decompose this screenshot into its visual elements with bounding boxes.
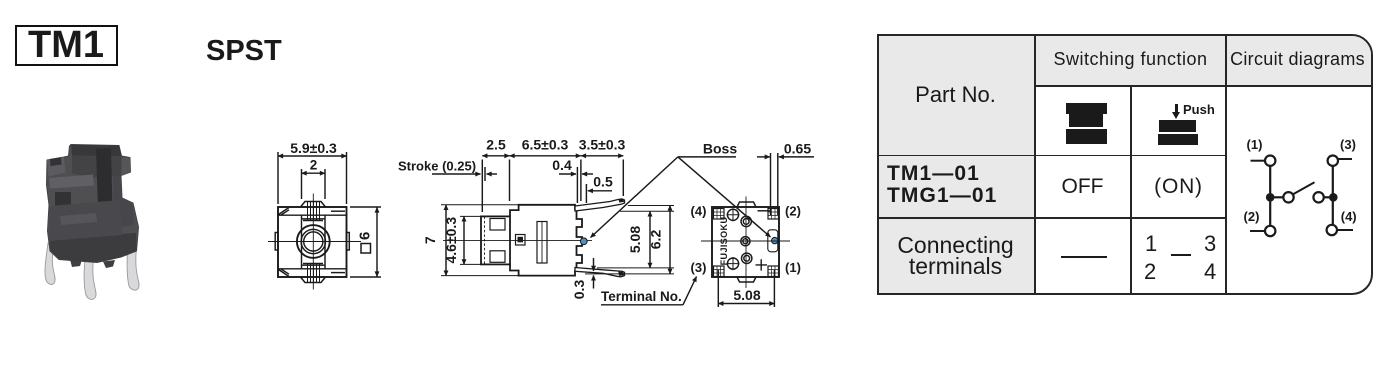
svg-text:0.65: 0.65 (784, 141, 811, 157)
top view button circles (297, 225, 330, 258)
terminal circle 3 (1328, 156, 1338, 166)
svg-text:0.5: 0.5 (593, 174, 613, 190)
dim 0.3 arrows (593, 258, 595, 271)
dim line 2.5 (482, 155, 509, 157)
row connecting terminals (877, 219, 1034, 293)
terminal no. leader arrow (683, 277, 697, 305)
wire left vertical (1269, 166, 1271, 226)
push arrow (1175, 104, 1178, 112)
FUJISOKU brand text (719, 217, 729, 266)
leg centre extension lines (620, 210, 674, 212)
dim 2 extension lines (301, 169, 303, 199)
bottom view top bump (737, 202, 756, 207)
table outer frame (877, 34, 1373, 295)
svg-text:4.6±0.3: 4.6±0.3 (443, 217, 459, 264)
bottom view circle with cross bottom (727, 258, 738, 269)
photo lower mid facet (49, 200, 122, 241)
part number box TM1 (15, 25, 118, 66)
pole circle right (1313, 192, 1323, 202)
dim text 6.2 (648, 230, 664, 250)
svg-text:0.4: 0.4 (552, 157, 572, 173)
cell OFF (1035, 156, 1130, 217)
bottom view body (712, 207, 779, 277)
svg-text:(1): (1) (1247, 137, 1263, 152)
svg-text:(4): (4) (1341, 209, 1357, 224)
dim line 6.5 (510, 155, 581, 157)
dim text 4.6±0.3 (443, 217, 459, 264)
push label (1183, 102, 1227, 117)
series title SPST (206, 35, 296, 65)
header switching function (1035, 34, 1226, 85)
technical drawing (0, 0, 880, 379)
svg-text:6.5±0.3: 6.5±0.3 (522, 137, 569, 153)
dim text 7 (422, 236, 438, 244)
circuit diagrams header background (1228, 36, 1371, 86)
side view button (481, 216, 510, 264)
photo mid flange light band (49, 175, 94, 189)
top view centre channel (301, 215, 303, 269)
svg-text:5.08: 5.08 (733, 287, 760, 303)
svg-text:Boss: Boss (703, 141, 737, 157)
boss dot bottom view (772, 237, 778, 243)
dim text 0.3 (571, 280, 587, 300)
header circuit diagrams (1226, 34, 1369, 85)
side view bottom leg (575, 268, 625, 277)
top view bottom tab (301, 277, 326, 283)
terminal stub 2 (1250, 230, 1265, 232)
svg-text:2: 2 (310, 158, 318, 173)
photo dark inset window (55, 192, 71, 213)
product photo (tactile switch) (28, 140, 148, 305)
bottom view centrelines (701, 240, 790, 242)
svg-text:5.08: 5.08 (627, 226, 643, 253)
grid line horizontal 3 (877, 217, 1227, 219)
bottom view boss outline (768, 230, 778, 252)
terminal circle 4 (1327, 225, 1337, 235)
dim line square-6 (376, 208, 378, 277)
side view centre nub (516, 235, 526, 246)
top view side tabs (275, 233, 278, 251)
dim line 3.5 (581, 155, 623, 157)
wire right vertical (1332, 166, 1334, 225)
icon switch pushed (1158, 120, 1198, 146)
dim square-6 extension lines (350, 206, 381, 208)
boss underline (678, 156, 736, 158)
dim line 6.2 (669, 206, 671, 274)
dim 0.65 extension lines (770, 153, 772, 215)
cell terminals 1-3 2-4 (1145, 231, 1160, 263)
terminal stub 4 (1337, 229, 1353, 231)
photo centre crevice (96, 148, 113, 210)
side view body (510, 205, 582, 276)
photo lower shadow band (50, 233, 137, 263)
dim line 5.08 vertical (649, 211, 651, 268)
part no. column background (879, 36, 1036, 293)
photo bottom teeth (70, 260, 82, 268)
icon switch released (1066, 103, 1107, 145)
dim line 4.6 (463, 216, 465, 264)
bottom view circle with cross top (727, 209, 738, 220)
photo top cap dark face (71, 145, 122, 158)
svg-text:(3): (3) (691, 260, 707, 275)
dim 5.9 extension lines (277, 152, 279, 204)
side view inner slot (537, 222, 547, 264)
photo left ear block (47, 157, 66, 177)
svg-text:3.5±0.3: 3.5±0.3 (579, 137, 626, 153)
svg-text:(1): (1) (785, 260, 801, 275)
dim 7 extension lines (441, 204, 518, 206)
grid line horizontal 1 (1034, 85, 1373, 87)
photo left ear dark top (50, 157, 62, 166)
terminal circle 2 (1265, 226, 1275, 236)
top view corner marks (279, 208, 290, 215)
terminal circle 1 (1265, 156, 1275, 166)
boss leader left (591, 157, 678, 238)
svg-text:Terminal No.: Terminal No. (601, 289, 682, 304)
grid line horizontal 2 (877, 155, 1227, 157)
wire to pole left (1270, 196, 1283, 198)
junction dot left (1266, 193, 1275, 202)
photo small highlight (60, 213, 97, 225)
boss leader right (678, 157, 771, 237)
boss dot side view (580, 238, 587, 245)
cell dash (1061, 256, 1107, 258)
bottom view bottom bump (737, 277, 756, 282)
switching function header background (1036, 36, 1228, 86)
dim line 5.9 (278, 155, 347, 157)
side view top leg (575, 199, 625, 211)
pole circle left (1283, 192, 1293, 202)
dim line 2 (302, 172, 326, 174)
svg-text:Stroke (0.25): Stroke (0.25) (398, 159, 476, 174)
bottom view ring centre (741, 237, 750, 246)
stroke leader arrow (432, 173, 481, 175)
photo leg front-middle (84, 250, 96, 299)
circuit diagram (1226, 86, 1369, 289)
grid line vertical 2 (1130, 85, 1132, 295)
svg-text:6: 6 (357, 232, 374, 240)
side view centreline (443, 239, 592, 241)
photo upper block face (72, 156, 122, 178)
row TM1-01 (887, 163, 1037, 211)
junction dot right (1329, 193, 1338, 202)
bottom view top-right dash (758, 210, 771, 212)
side view top dims extension lines (481, 160, 483, 213)
photo switch body silhouette (47, 145, 139, 263)
bottom view plus mark (756, 259, 768, 270)
switch arm (1294, 182, 1315, 194)
svg-text:6.2: 6.2 (648, 230, 664, 250)
svg-text:(3): (3) (1340, 137, 1356, 152)
svg-text:(4): (4) (691, 204, 707, 219)
top view top tab (301, 202, 326, 208)
svg-text:5.9±0.3: 5.9±0.3 (290, 140, 337, 156)
dim text square-6 (361, 244, 371, 254)
header part no. (877, 34, 1034, 155)
top view centrelines (312, 194, 314, 290)
dim text 5.08 vertical (627, 226, 643, 253)
terminal stub 1 (1251, 160, 1266, 162)
photo top-right ear facet (121, 158, 131, 176)
photo leg front-right (127, 237, 139, 290)
cell (ON) (1132, 156, 1225, 217)
top view body (278, 207, 347, 277)
svg-text:(2): (2) (1244, 209, 1260, 224)
bottom view ring top (741, 216, 751, 226)
dim 4.6 extension lines (460, 215, 481, 217)
photo leg front-left (45, 243, 55, 284)
grid line vertical 1 (1034, 34, 1036, 295)
top view rim lines (278, 214, 347, 216)
svg-text:2.5: 2.5 (486, 137, 506, 153)
photo right block facet (113, 176, 134, 229)
grid line vertical 3 (1225, 34, 1227, 295)
svg-text:7: 7 (422, 236, 438, 244)
dim line 5.08 bottom (718, 303, 774, 305)
dim 0.65 arrows (757, 156, 770, 158)
wire from pole right (1324, 196, 1334, 198)
dim 5.08 bottom extension lines (717, 270, 719, 307)
svg-text:(2): (2) (785, 204, 801, 219)
svg-text:0.3: 0.3 (571, 280, 587, 300)
dim line 7 (445, 205, 447, 276)
bottom view ring bottom (742, 253, 752, 263)
specification table (877, 34, 1373, 295)
terminal stub 3 (1338, 158, 1352, 160)
bottom view corner pads (714, 209, 779, 277)
